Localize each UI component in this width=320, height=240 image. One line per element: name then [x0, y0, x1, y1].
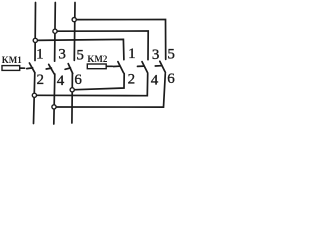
contactor KM2 contact 3-4 blade [142, 62, 148, 73]
KM1 linkage dash at contact 5 [65, 68, 70, 69]
contactor KM1 contact 3-4 blade [49, 64, 55, 74]
node B junction [53, 29, 57, 33]
wire KM2 output 4 to node D [34, 74, 147, 96]
svg-text:1: 1 [128, 46, 136, 62]
node C junction [72, 18, 76, 22]
coil KM1 stub [20, 67, 25, 69]
svg-text:4: 4 [57, 73, 65, 89]
wire L1 supply vertical [34, 3, 37, 61]
contactor KM2 contact 1-2 blade [118, 62, 124, 73]
svg-text:4: 4 [151, 73, 159, 89]
wire KM1 output 4 vertical [54, 74, 55, 124]
wire KM2 output 6 to node E [54, 74, 165, 108]
wire KM2 output 2 to node F [72, 74, 124, 90]
svg-text:2: 2 [128, 72, 136, 88]
svg-text:5: 5 [76, 47, 84, 63]
node A junction [33, 38, 37, 42]
wire branch node B to KM2 contact 3 [55, 31, 148, 60]
KM1 linkage dash at contact 1 [27, 67, 33, 70]
contactor KM2 contact 5-6 blade [160, 61, 166, 72]
svg-text:5: 5 [167, 47, 175, 63]
svg-text:2: 2 [37, 72, 45, 88]
KM2 linkage dash at contact 3 [138, 65, 144, 67]
wire KM1 output 2 vertical [34, 73, 35, 124]
svg-text:3: 3 [152, 47, 160, 63]
node E junction [52, 105, 56, 109]
wire branch node C to KM2 contact 5 [74, 20, 166, 60]
node F junction [70, 88, 74, 92]
coil KM2 box [87, 64, 106, 69]
wire L3 supply vertical [73, 3, 76, 61]
wire L2 supply vertical [54, 3, 57, 62]
KM1 linkage dash at contact 3 [46, 67, 51, 70]
KM2 linkage dash at contact 5 [155, 65, 161, 67]
svg-text:6: 6 [74, 72, 82, 88]
svg-text:3: 3 [58, 47, 66, 63]
svg-text:1: 1 [36, 47, 44, 63]
wire branch node A to KM2 contact 1 [35, 39, 124, 59]
svg-text:KM1: KM1 [2, 55, 22, 65]
wire KM1 output 6 vertical [71, 74, 74, 124]
coil KM2 stub [106, 65, 112, 67]
svg-text:KM2: KM2 [87, 54, 107, 64]
KM2 linkage dash at contact 1 [113, 65, 119, 67]
contactor KM1 contact 5-6 blade [68, 64, 73, 74]
contactor KM1 contact 1-2 blade [29, 63, 35, 73]
coil KM1 box [2, 66, 20, 71]
node D junction [32, 93, 36, 97]
svg-text:6: 6 [167, 71, 175, 87]
